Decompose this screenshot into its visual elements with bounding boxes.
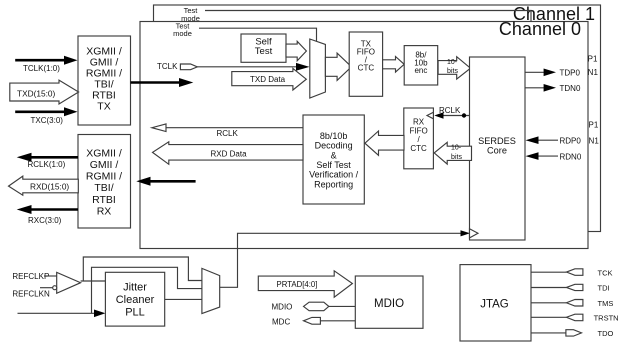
input arrow TCLK(1:0) [15, 56, 77, 65]
hollow arrow TX FIFO to 8b/10b enc [383, 57, 405, 73]
svg-text:TXD Data: TXD Data [250, 75, 286, 84]
hollow arrow Self Test to mux [286, 41, 306, 61]
clock marker RX FIFO [427, 112, 433, 119]
output arrow RCLK(1:0) [17, 153, 78, 162]
bus arrow PRTAD[4:0] [258, 271, 352, 297]
svg-text:CTC: CTC [410, 144, 427, 153]
svg-text:&: & [331, 150, 337, 160]
block 8b/10b encoder [404, 46, 438, 85]
svg-text:Decoding: Decoding [315, 141, 353, 151]
label 10 bits (TX) [447, 59, 459, 75]
svg-text:bits: bits [451, 154, 462, 161]
port flag TCLK [180, 64, 197, 70]
input RDN0 [526, 152, 559, 160]
block TX interface XGMII/GMII/RGMII/TBI/RTBI TX [78, 36, 131, 125]
svg-text:RGMII /: RGMII / [86, 171, 122, 183]
mux M1 (TX source select) [310, 39, 326, 98]
port symbol TDO (output) [566, 330, 582, 336]
svg-text:TXC(3:0): TXC(3:0) [31, 116, 64, 125]
clock marker SERDES [470, 229, 479, 238]
thick arrow TX block to TXD Data path [131, 78, 194, 87]
svg-text:Cleaner: Cleaner [116, 294, 155, 306]
svg-text:Channel 0: Channel 0 [499, 19, 581, 39]
wire TRSTN [531, 316, 566, 318]
svg-text:CTC: CTC [358, 63, 375, 72]
block SERDES Core [470, 57, 526, 240]
svg-text:RX: RX [413, 118, 425, 127]
block JTAG [460, 265, 531, 341]
bus arrow 10 bits RX from SERDES [434, 142, 471, 164]
svg-text:RXD Data: RXD Data [211, 150, 248, 159]
bus arrow 10 bits TX to SERDES [438, 57, 470, 79]
wire buffer output branch up and over to mux M2 input 1 [83, 257, 202, 281]
svg-text:8b/10b: 8b/10b [320, 131, 348, 141]
svg-text:TCK: TCK [598, 268, 613, 277]
svg-text:bits: bits [447, 68, 458, 75]
bus arrow TXD Data [232, 68, 306, 90]
svg-text:TCLK: TCLK [157, 62, 178, 71]
port symbol MDIO (bidirectional) [304, 302, 329, 311]
svg-text:RCLK: RCLK [439, 106, 461, 115]
bus arrow RXD Data to left [153, 142, 304, 165]
wire buffer output to PLL [81, 280, 106, 282]
wire decoder output down to SERDES clock input [220, 230, 470, 287]
svg-text:enc: enc [414, 66, 427, 75]
svg-text:GMII /: GMII / [90, 159, 119, 171]
wire REFCLKN to buffer bubble [40, 287, 53, 289]
wire TCLK to mux with arrowhead [197, 63, 309, 71]
svg-text:Core: Core [487, 146, 507, 156]
svg-text:TCLK(1:0): TCLK(1:0) [23, 64, 60, 73]
svg-text:TDO: TDO [598, 329, 614, 338]
svg-text:TDP0: TDP0 [560, 69, 581, 78]
svg-text:RDP0: RDP0 [560, 136, 582, 145]
svg-text:10-: 10- [451, 144, 462, 151]
label Test mode (channel 1) [181, 6, 200, 23]
mux M2 (refclk select) [202, 268, 220, 313]
svg-text:SERDES: SERDES [478, 136, 516, 146]
wire refclk input line with arrowhead into PLL [18, 310, 106, 318]
bubble on inverting input [53, 286, 57, 290]
svg-text:TX: TX [97, 101, 110, 113]
block RX interface XGMII/GMII/RGMII/TBI/RTBI RX [78, 135, 131, 229]
svg-text:TXD(15:0): TXD(15:0) [17, 89, 56, 99]
svg-text:Reporting: Reporting [314, 179, 353, 189]
svg-text:RX: RX [97, 206, 112, 218]
port symbol TRSTN [566, 314, 583, 321]
svg-text:REFCLKN: REFCLKN [12, 290, 50, 299]
wire TDO [531, 332, 566, 334]
svg-text:REFCLKP: REFCLKP [12, 272, 49, 281]
output bus arrow RXD(15:0) [9, 176, 79, 195]
svg-text:MDC: MDC [272, 317, 290, 326]
wire test mode channel 0 to mux top [199, 28, 317, 42]
hollow arrow RX FIFO to decoder [365, 131, 404, 155]
buffer U1 (refclk differential input) [57, 272, 81, 293]
svg-text:RCLK: RCLK [217, 129, 239, 138]
svg-text:XGMII /: XGMII / [86, 148, 122, 160]
svg-text:TDN0: TDN0 [560, 84, 581, 93]
wire TDI [531, 287, 566, 289]
wire refclk direct branch to mux M2 input 2 [92, 267, 202, 313]
svg-text:PLL: PLL [125, 307, 145, 319]
svg-text:RTBI: RTBI [92, 194, 116, 206]
wire test mode channel 1 [205, 11, 531, 22]
svg-text:RXD(15:0): RXD(15:0) [30, 182, 69, 192]
wire TMS [531, 302, 566, 304]
output arrow RXC(3:0) [17, 205, 78, 214]
svg-text:Jitter: Jitter [123, 281, 147, 293]
hollow arrow mux to TX FIFO [325, 53, 351, 80]
block Self Test [241, 34, 286, 62]
output TDN0 [525, 84, 556, 92]
svg-text:Test: Test [255, 46, 273, 57]
input RDP0 [526, 136, 559, 144]
svg-text:10-: 10- [447, 59, 458, 66]
svg-text:Verification /: Verification / [309, 170, 359, 180]
svg-text:PRTAD[4:0]: PRTAD[4:0] [277, 280, 318, 289]
channel 1 rectangle [154, 5, 601, 232]
svg-text:RTBI: RTBI [92, 89, 116, 101]
output TDP0 [525, 69, 556, 77]
svg-text:mode: mode [173, 29, 192, 38]
wire REFCLKP to buffer [44, 275, 57, 277]
input arrow TXC(3:0) [15, 107, 77, 116]
wire RCLK to left with hollow arrowhead [152, 124, 303, 132]
wire TCK [531, 271, 566, 273]
block Jitter Cleaner PLL [105, 272, 164, 326]
block RX FIFO / CTC [404, 108, 434, 169]
port symbol TMS [566, 300, 583, 307]
port symbol TCK [566, 269, 583, 276]
svg-text:FIFO: FIFO [409, 126, 427, 135]
wire MDC to block [320, 320, 355, 322]
svg-text:TMS: TMS [598, 299, 614, 308]
svg-text:JTAG: JTAG [480, 299, 509, 311]
svg-text:TBI/: TBI/ [94, 182, 113, 194]
thick arrow into RX block [136, 177, 195, 186]
svg-text:RCLK(1:0): RCLK(1:0) [28, 160, 66, 169]
wire MDIO to block [329, 305, 356, 307]
wire PLL output to mux M2 input 3 [165, 298, 202, 300]
junction dot RCLK [462, 113, 466, 117]
channel 0 rectangle [140, 22, 588, 249]
svg-text:TDI: TDI [598, 284, 610, 293]
block 8b/10b Decoding & Self Test Verification/Reporting [303, 115, 364, 204]
svg-text:MDIO: MDIO [374, 298, 404, 310]
svg-text:MDIO: MDIO [272, 303, 293, 312]
port symbol TDI [566, 284, 583, 290]
block MDIO [355, 276, 423, 328]
label Test mode (channel 0) [173, 21, 192, 38]
label 10 bits (RX) [451, 144, 463, 161]
wire RCLK from SERDES to RX FIFO [434, 112, 469, 118]
svg-text:RDN0: RDN0 [560, 152, 582, 161]
svg-text:RXC(3:0): RXC(3:0) [28, 216, 62, 225]
svg-text:TRSTN: TRSTN [594, 314, 619, 323]
input bus arrow TXD(15:0) [10, 80, 79, 104]
svg-text:Self Test: Self Test [316, 160, 351, 170]
port symbol MDC [304, 317, 321, 324]
block TX FIFO / CTC [349, 32, 382, 96]
